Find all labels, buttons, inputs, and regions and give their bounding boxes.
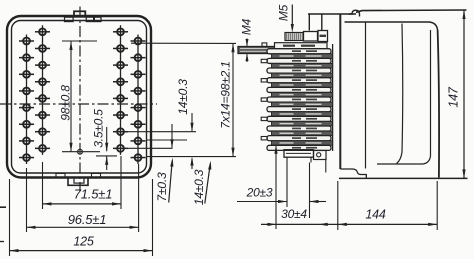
right view: second row wide plate	[275, 43, 328, 49]
left view: top mounting tab	[74, 11, 85, 16]
svg-text:20±3: 20±3	[246, 186, 273, 200]
ext line pin row7 outer (y140)	[146, 139, 187, 141]
left view: vertical centerline	[79, 7, 81, 192]
terminal pin B2	[35, 45, 50, 52]
right view: bottom foot step	[340, 169, 366, 178]
svg-text:71.5±1: 71.5±1	[74, 187, 112, 202]
terminal pin D3	[131, 71, 146, 78]
right view: terminal plate 10	[261, 136, 331, 141]
left view: bottom mounting tab	[68, 178, 88, 186]
right view: spacer 10	[272, 141, 333, 146]
terminal pin B8	[35, 145, 50, 152]
right view: terminal plate 6	[261, 97, 331, 102]
right view: second row stub	[262, 43, 267, 47]
terminal pin A1	[19, 38, 34, 45]
terminal pin C4	[113, 78, 128, 85]
dim 7x14=98±2.1 line	[232, 43, 234, 156]
terminal pin C5	[113, 95, 128, 102]
left view: bottom edge notch right	[92, 173, 101, 177]
right view: top-left ledge line	[308, 13, 356, 15]
right view: retaining post	[308, 14, 310, 31]
scan artifact: left margin tick 2	[0, 241, 4, 243]
svg-text:M5: M5	[277, 4, 291, 21]
terminal pin B7	[35, 128, 50, 135]
right view: upper rear terminal block	[318, 31, 328, 42]
dim 98±0.8 extension line top	[62, 40, 97, 42]
right view: case shoulder line	[345, 22, 438, 30]
terminal pin B3	[35, 62, 50, 69]
svg-text:7±0.3: 7±0.3	[155, 172, 169, 201]
terminal pin C6	[113, 112, 128, 119]
svg-text:M4: M4	[240, 18, 254, 35]
left view: case inner outline	[12, 21, 147, 174]
right view: spacer 1	[272, 54, 333, 59]
dim 96.5±1 line	[27, 226, 139, 228]
ext line pin row7 inner (y131.7)	[128, 131, 196, 133]
terminal pin A2	[19, 54, 34, 61]
svg-text:144: 144	[365, 208, 386, 222]
terminal pin C1	[113, 28, 128, 35]
right view: case front inner line	[365, 22, 367, 169]
left view: bottom edge notch left	[56, 173, 65, 177]
ext line pin row1 outer to 7x14 dim (y40.1)	[131, 42, 236, 44]
terminal pin D2	[131, 54, 146, 61]
svg-text:14±0.3: 14±0.3	[176, 79, 190, 115]
right view: spacer 8	[272, 121, 333, 126]
dim 98±0.8 line with arrows	[70, 41, 72, 152]
right view: case right edge	[438, 30, 439, 178]
left view: terminal column A axis line	[26, 35, 28, 165]
right view: terminal plate 1	[267, 49, 331, 54]
svg-text:30±4: 30±4	[281, 207, 307, 221]
right view: stud holder block	[304, 32, 318, 42]
leader for lower 14±0.3	[205, 164, 211, 204]
terminal pin C3	[113, 62, 128, 69]
right view: bottom small box with screw	[314, 151, 327, 160]
dim 20±3 / 30±4 left extension with fin arrow	[275, 146, 277, 229]
left view: terminal column C axis line	[120, 25, 122, 155]
terminal pin D7	[131, 138, 146, 145]
svg-text:7x14=98±2.1: 7x14=98±2.1	[219, 61, 233, 128]
terminal pin C2	[113, 45, 128, 52]
terminal pin A4	[19, 88, 34, 95]
right view: spacer 2	[272, 63, 333, 68]
terminal pin A5	[19, 104, 34, 111]
dim 98±0.8 extension line bottom	[62, 151, 100, 153]
terminal pin B6	[35, 112, 50, 119]
terminal pin B5	[35, 95, 50, 102]
dim 14±0.3 lower up arrow at x=192	[191, 159, 193, 170]
left view: case outer outline	[7, 16, 151, 178]
ext line pin row8 inner (y148.3)	[128, 147, 173, 149]
right view: terminal plate 2	[261, 58, 331, 63]
dim M4 arrows	[246, 39, 248, 46]
right view: spacer 4	[272, 83, 333, 88]
right view: lid hook	[349, 10, 360, 16]
terminal pin C8	[113, 145, 128, 152]
right view: fins rear wall	[332, 44, 334, 151]
right view: terminal plate 8	[261, 116, 331, 121]
right view: terminal plate 3	[267, 68, 331, 73]
right view: terminal plate 5	[267, 87, 331, 92]
right view: case front outer edge	[339, 14, 341, 169]
svg-text:3.5±0.5: 3.5±0.5	[92, 109, 106, 148]
left view: top edge notch left	[65, 17, 74, 21]
dim 20±3 line with outside arrows at stud	[286, 158, 288, 208]
right view: spacer 6	[272, 102, 333, 107]
terminal pin A8	[19, 154, 34, 161]
terminal pin C7	[113, 128, 128, 135]
dim 144 line (shared with 30±4)	[337, 181, 339, 230]
right view: inner bottom line	[377, 156, 431, 164]
terminal pin A6	[19, 121, 34, 128]
right view: terminal plate 4	[261, 78, 331, 83]
right view: case inner moulding line	[397, 24, 403, 164]
left view: horizontal centerline	[0, 103, 157, 105]
terminal pin A3	[19, 71, 34, 78]
svg-text:147: 147	[447, 86, 461, 108]
dim 7±0.3 arrows at x=172	[171, 124, 173, 148]
dim 14±0.3 upper arrows at x=192	[191, 113, 193, 131]
left view: top edge notch right 2	[94, 17, 101, 21]
dim 125 line	[10, 250, 153, 252]
right view: M5 threaded stud	[285, 33, 303, 41]
ext line pin row8 outer (y156.6)	[146, 156, 236, 158]
terminal pin D5	[131, 104, 146, 111]
terminal pin D6	[131, 121, 146, 128]
leader for 7±0.3	[169, 161, 173, 203]
svg-text:96.5±1: 96.5±1	[68, 212, 106, 227]
svg-text:98±0.8: 98±0.8	[58, 85, 72, 121]
svg-text:125: 125	[73, 235, 94, 249]
dim 3.5±0.5 extension line lower	[96, 155, 117, 157]
right view: inner right line	[430, 30, 432, 156]
svg-text:14±0.3: 14±0.3	[192, 169, 206, 205]
right view: terminal plate 9	[267, 126, 331, 131]
dim 147	[463, 10, 465, 178]
terminal pin A7	[19, 138, 34, 145]
left view: terminal column D axis line	[137, 35, 139, 165]
right view: case top edge (147 top extension)	[356, 10, 467, 12]
terminal pin D1	[131, 38, 146, 45]
right view: spacer 9	[272, 131, 333, 136]
right view: link to case	[325, 160, 327, 173]
left view: top edge notch right 1	[86, 17, 93, 21]
terminal pin D4	[131, 88, 146, 95]
terminal pin D8	[131, 154, 146, 161]
terminal pin B4	[35, 78, 50, 85]
terminal pin B1	[35, 28, 50, 35]
right view: spacer 3	[272, 73, 333, 78]
right view: spacer 7	[272, 112, 333, 117]
right view: case bottom edge (147 bottom extension)	[339, 177, 468, 179]
right view: bottom terminal flat block	[284, 150, 314, 158]
left view: terminal column B axis line	[42, 25, 44, 155]
scan artifact: left margin tick	[0, 206, 6, 208]
right view: terminal plate 11	[267, 145, 331, 150]
node: centre mark circle on bottom extension	[78, 149, 83, 154]
right view: terminal plate 7	[267, 107, 331, 112]
ext lines below case	[9, 179, 11, 256]
dim 3.5±0.5 arrows	[106, 127, 108, 151]
dim 71.5±1 line	[43, 203, 122, 205]
right view: spacer 5	[272, 92, 333, 97]
right view: M4 terminal plate	[238, 47, 280, 54]
